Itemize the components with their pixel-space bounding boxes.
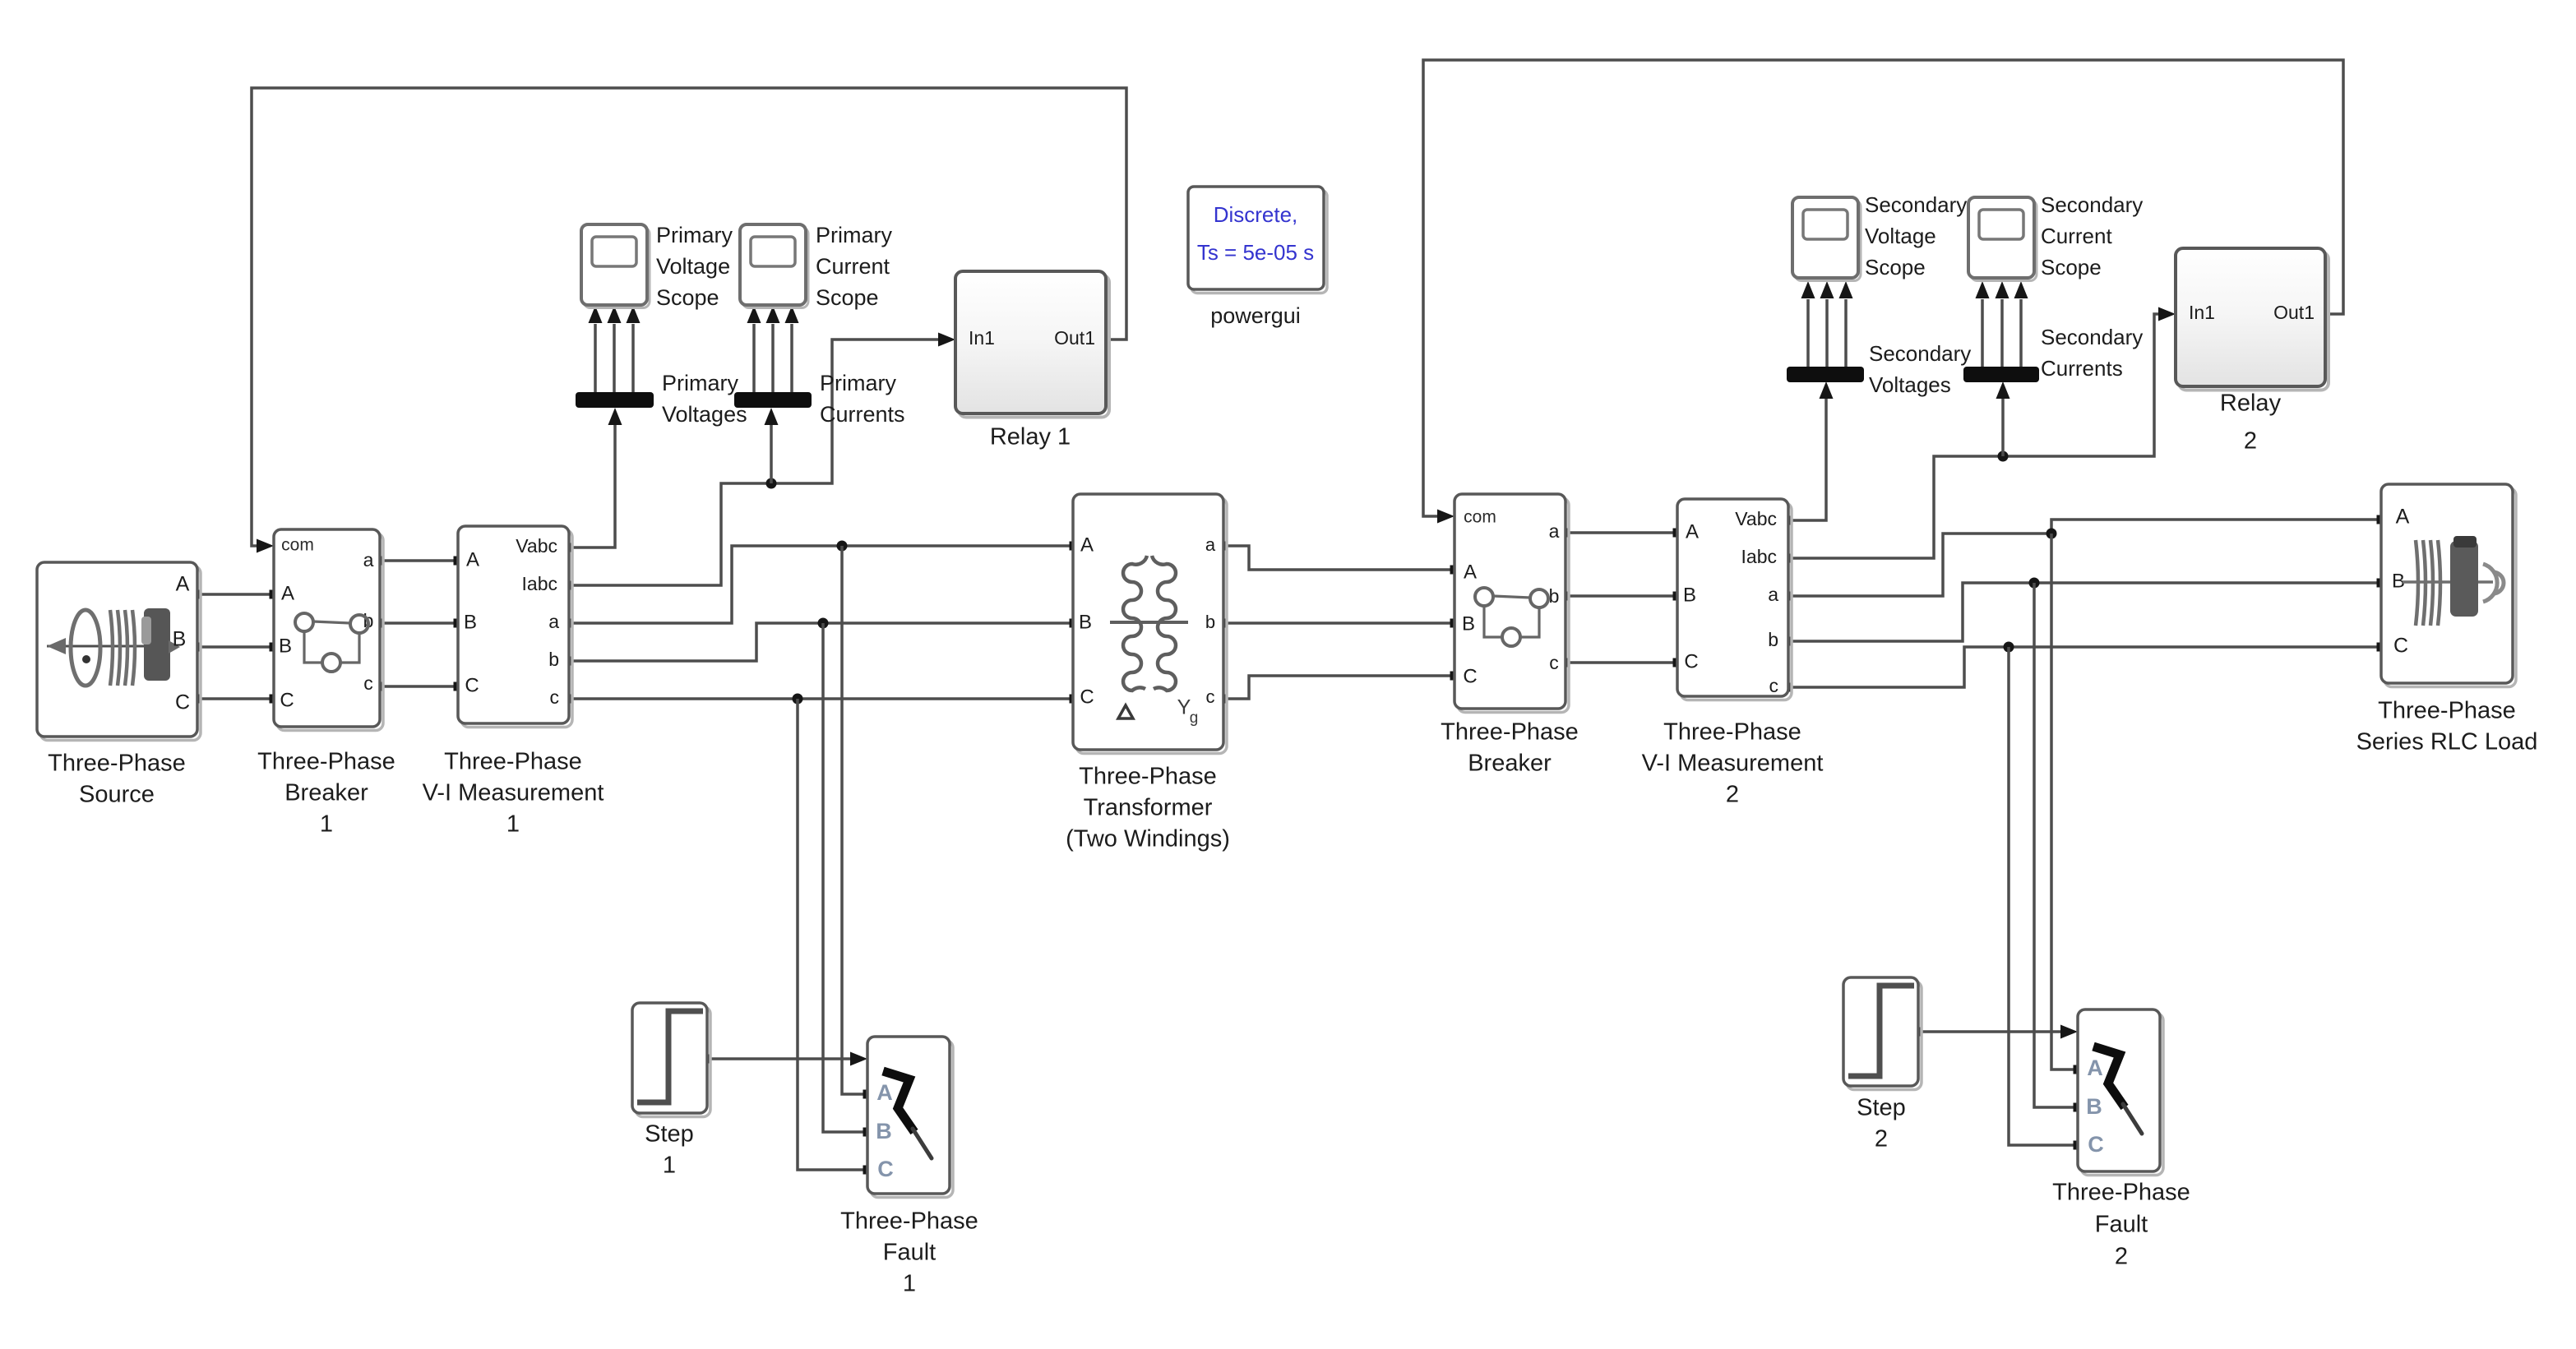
svg-text:B: B — [1079, 611, 1092, 633]
svg-text:Secondary: Secondary — [2041, 325, 2143, 349]
three-phase source block — [37, 562, 201, 741]
label Primary Current Scope — [816, 223, 892, 310]
wire tap phase C to Fault1 C — [793, 694, 872, 1175]
junction Iabc2 to Secondary Currents mux — [1996, 381, 2010, 462]
svg-text:A: A — [176, 573, 190, 596]
primary voltages mux bar — [576, 392, 654, 408]
svg-text:Three-Phase: Three-Phase — [2378, 698, 2516, 724]
svg-text:c: c — [363, 672, 373, 694]
label Step 2 — [1857, 1095, 1906, 1153]
wire tap phase B to Fault1 B — [818, 618, 872, 1137]
svg-text:a: a — [1768, 584, 1778, 605]
svg-text:1: 1 — [506, 811, 520, 838]
primary current scope block — [740, 224, 808, 308]
wire Primary Voltages mux out 1 to Voltage Scope — [589, 306, 603, 392]
svg-text:Relay: Relay — [2220, 390, 2282, 417]
label Relay 2 — [2220, 390, 2282, 455]
label Three-Phase Fault 1 — [840, 1208, 978, 1297]
three-phase V-I measurement 2 block — [1677, 499, 1792, 700]
powergui block — [1188, 187, 1327, 293]
svg-text:Scope: Scope — [2041, 255, 2102, 280]
svg-text:a: a — [548, 611, 559, 632]
svg-text:B: B — [1462, 612, 1475, 635]
svg-text:Relay 1: Relay 1 — [990, 424, 1071, 450]
wire Breaker2 c to VI2 C — [1561, 658, 1682, 668]
svg-text:Three-Phase: Three-Phase — [444, 749, 582, 775]
svg-text:Primary: Primary — [656, 223, 733, 247]
svg-text:C: C — [175, 691, 190, 714]
svg-text:Fault: Fault — [883, 1240, 936, 1266]
wire Primary Voltages mux out 2 to Voltage Scope — [608, 306, 622, 392]
label Three-Phase Source — [48, 751, 186, 808]
svg-text:Three-Phase: Three-Phase — [257, 749, 395, 775]
wire Secondary Voltages mux out 3 to Voltage Scope — [1839, 281, 1853, 367]
wire VI1 Iabc to Relay1 In1 — [565, 333, 956, 590]
svg-text:A: A — [1686, 520, 1699, 543]
secondary current scope block — [1968, 197, 2037, 281]
svg-text:Three-Phase: Three-Phase — [840, 1208, 978, 1235]
svg-text:b: b — [1205, 612, 1215, 632]
svg-text:powergui: powergui — [1210, 303, 1301, 328]
label Three-Phase V-I Measurement 2 — [1642, 719, 1824, 808]
wire tap phase A to Fault1 A — [837, 541, 872, 1099]
three-phase transformer (two windings) block — [1073, 494, 1227, 754]
svg-text:C: C — [877, 1157, 894, 1181]
primary voltage scope block — [581, 224, 650, 308]
step 2 block — [1843, 977, 1922, 1090]
svg-text:Source: Source — [79, 782, 155, 808]
svg-text:g: g — [1190, 709, 1199, 727]
svg-text:C: C — [1080, 686, 1094, 708]
svg-text:Breaker: Breaker — [284, 780, 368, 806]
svg-text:a: a — [363, 549, 374, 571]
primary currents mux bar — [734, 392, 812, 408]
svg-text:Transformer: Transformer — [1084, 795, 1213, 821]
wire VI2 c to RLC Load C — [1784, 643, 2386, 692]
svg-text:2: 2 — [1726, 782, 1739, 808]
svg-text:(Two Windings): (Two Windings) — [1066, 826, 1230, 852]
label Primary Voltages — [662, 371, 747, 427]
three-phase V-I measurement 1 block — [458, 526, 572, 728]
svg-text:In1: In1 — [2189, 302, 2215, 323]
svg-text:1: 1 — [903, 1271, 916, 1297]
svg-text:2: 2 — [2244, 428, 2257, 455]
wire Secondary Currents mux out 3 to Current Scope — [2014, 281, 2028, 367]
svg-text:Currents: Currents — [2041, 356, 2123, 381]
svg-text:Secondary: Secondary — [1865, 192, 1967, 217]
wire Secondary Voltages mux out 1 to Voltage Scope — [1801, 281, 1815, 367]
svg-text:c: c — [1206, 686, 1215, 707]
svg-text:B: B — [173, 628, 187, 651]
svg-text:Voltage: Voltage — [656, 254, 730, 279]
wire Secondary Currents mux out 1 to Current Scope — [1976, 281, 1990, 367]
svg-text:B: B — [464, 611, 477, 633]
svg-text:Voltages: Voltages — [1869, 372, 1951, 397]
svg-text:V-I Measurement: V-I Measurement — [1642, 751, 1824, 777]
svg-text:Secondary: Secondary — [1869, 341, 1971, 366]
svg-text:C: C — [2088, 1132, 2104, 1157]
svg-text:b: b — [1768, 629, 1778, 650]
svg-text:Scope: Scope — [656, 285, 719, 310]
label Three-Phase Fault 2 — [2052, 1180, 2190, 1270]
svg-text:Vabc: Vabc — [516, 535, 557, 557]
three-phase series RLC load block — [2381, 484, 2516, 687]
svg-text:Three-Phase: Three-Phase — [1441, 719, 1579, 746]
svg-text:1: 1 — [320, 811, 333, 838]
svg-text:a: a — [1205, 534, 1216, 555]
svg-text:Series RLC Load: Series RLC Load — [2356, 729, 2538, 755]
wire Source A to Breaker1 A — [193, 590, 279, 599]
svg-text:B: B — [876, 1119, 892, 1143]
label Three-Phase V-I Measurement 1 — [423, 749, 604, 838]
subsystem Relay 2 block — [2176, 248, 2329, 390]
svg-text:A: A — [2087, 1056, 2103, 1080]
three-phase breaker 2 block — [1454, 494, 1569, 713]
svg-text:Primary: Primary — [662, 371, 738, 395]
label Secondary Voltage Scope — [1865, 192, 1967, 280]
wire Breaker1 c to VI1 C — [376, 682, 463, 691]
wire Primary Voltages mux out 3 to Voltage Scope — [627, 306, 641, 392]
wire Transformer a to Breaker2 A — [1219, 542, 1459, 575]
wire Primary Currents mux out 1 to Current Scope — [747, 306, 761, 392]
svg-text:com: com — [281, 536, 314, 555]
svg-text:A: A — [1464, 561, 1477, 583]
wire Secondary Currents mux out 2 to Current Scope — [1996, 281, 2009, 367]
svg-text:Out1: Out1 — [2273, 302, 2315, 323]
wire Primary Currents mux out 2 to Current Scope — [766, 306, 780, 392]
svg-text:b: b — [1549, 585, 1560, 607]
wire Breaker1 b to VI1 B — [376, 619, 463, 628]
svg-text:A: A — [281, 582, 294, 604]
svg-text:A: A — [876, 1080, 893, 1105]
wire tap phase C to Fault2 C — [2004, 642, 2083, 1150]
wire VI1 a to Transformer A — [565, 542, 1079, 628]
wire Secondary Voltages mux out 2 to Voltage Scope — [1820, 281, 1834, 367]
wire tap phase B to Fault2 B — [2029, 578, 2083, 1112]
three-phase breaker 1 block — [274, 529, 383, 731]
wire tap phase A to Fault2 A — [2046, 529, 2083, 1074]
svg-text:Voltages: Voltages — [662, 402, 747, 427]
svg-text:C: C — [1684, 650, 1698, 672]
svg-text:Iabc: Iabc — [522, 573, 557, 594]
wire Primary Currents mux out 3 to Current Scope — [785, 306, 799, 392]
wire Step1 to Fault1 trigger — [701, 1052, 868, 1066]
svg-text:Iabc: Iabc — [1741, 546, 1777, 567]
svg-text:Three-Phase: Three-Phase — [1079, 764, 1217, 790]
label Step 1 — [645, 1121, 694, 1179]
svg-text:Ts = 5e-05 s: Ts = 5e-05 s — [1197, 240, 1314, 265]
wire Step2 to Fault2 trigger — [1914, 1025, 2079, 1039]
wire Breaker2 a to VI2 A — [1561, 529, 1682, 538]
label Relay 1 — [990, 424, 1071, 450]
svg-text:Step: Step — [645, 1121, 694, 1148]
secondary currents mux bar — [1963, 367, 2039, 382]
svg-text:1: 1 — [663, 1153, 676, 1179]
svg-text:C: C — [280, 689, 294, 711]
secondary voltage scope block — [1792, 197, 1861, 281]
wire Transformer c to Breaker2 C — [1219, 672, 1459, 704]
svg-text:Scope: Scope — [816, 285, 879, 310]
svg-text:Three-Phase: Three-Phase — [2052, 1180, 2190, 1206]
svg-text:Scope: Scope — [1865, 255, 1926, 280]
svg-text:Currents: Currents — [820, 402, 905, 427]
svg-text:a: a — [1549, 520, 1560, 542]
svg-text:b: b — [548, 649, 559, 670]
svg-text:Three-Phase: Three-Phase — [1663, 719, 1801, 746]
wire VI2 a to RLC Load A — [1784, 515, 2386, 601]
wire Breaker2 b to VI2 B — [1561, 592, 1682, 601]
label Primary Voltage Scope — [656, 223, 733, 310]
label Three-Phase Breaker 1 — [257, 749, 395, 838]
wire Source C to Breaker1 C — [193, 695, 279, 704]
svg-text:c: c — [550, 686, 560, 708]
wire VI1 Vabc to Primary Voltages mux — [565, 408, 622, 552]
svg-text:Vabc: Vabc — [1735, 508, 1777, 529]
svg-text:com: com — [1464, 508, 1496, 527]
svg-text:B: B — [2086, 1094, 2102, 1119]
wire Relay2 Out1 feedback loop to Breaker2 com — [1423, 60, 2343, 524]
svg-text:Primary: Primary — [816, 223, 892, 247]
label Secondary Current Scope — [2041, 192, 2143, 280]
svg-text:2: 2 — [2115, 1244, 2128, 1270]
svg-text:2: 2 — [1875, 1126, 1888, 1153]
three-phase fault 1 block — [867, 1037, 953, 1198]
label Secondary Voltages — [1869, 341, 1971, 397]
junction Iabc to Primary Currents mux — [765, 408, 779, 489]
svg-text:c: c — [1549, 652, 1559, 673]
wire Source B to Breaker1 B — [193, 643, 279, 652]
svg-text:Discrete,: Discrete, — [1214, 202, 1298, 227]
subsystem Relay 1 block — [955, 271, 1109, 418]
svg-text:Primary: Primary — [820, 371, 896, 395]
svg-text:A: A — [1080, 534, 1094, 556]
label Three-Phase Series RLC Load — [2356, 698, 2538, 755]
svg-text:C: C — [2393, 635, 2408, 658]
secondary voltages mux bar — [1787, 367, 1864, 382]
svg-text:C: C — [465, 674, 479, 696]
svg-text:Out1: Out1 — [1054, 327, 1095, 349]
label Primary Currents — [820, 371, 905, 427]
step 1 block — [632, 1003, 710, 1117]
wire Breaker1 a to VI1 A — [376, 557, 463, 566]
svg-text:Secondary: Secondary — [2041, 192, 2143, 217]
wire VI2 Vabc to Secondary Voltages mux — [1784, 381, 1834, 525]
svg-text:A: A — [2396, 506, 2410, 529]
svg-text:B: B — [279, 635, 292, 657]
three-phase fault 2 block — [2078, 1009, 2163, 1176]
label powergui — [1210, 303, 1301, 328]
svg-text:C: C — [1463, 665, 1477, 687]
svg-text:Current: Current — [2041, 224, 2112, 248]
svg-text:Fault: Fault — [2095, 1212, 2148, 1238]
svg-text:Current: Current — [816, 254, 890, 279]
label Three-Phase Breaker — [1441, 719, 1579, 777]
label Secondary Currents — [2041, 325, 2143, 381]
svg-text:V-I Measurement: V-I Measurement — [423, 780, 604, 806]
svg-text:A: A — [466, 548, 479, 571]
svg-text:Three-Phase: Three-Phase — [48, 751, 186, 777]
svg-text:Step: Step — [1857, 1095, 1906, 1121]
label Three-Phase Transformer (Two Windings) — [1066, 764, 1230, 852]
wire VI2 Iabc to Relay2 In1 — [1784, 307, 2176, 563]
wire VI1 c to Transformer C — [565, 695, 1079, 704]
wire Relay1 Out1 feedback loop to Breaker1 com — [252, 88, 1126, 553]
wire Transformer b to Breaker2 B — [1219, 619, 1459, 628]
svg-text:c: c — [1769, 675, 1779, 696]
wire VI2 b to RLC Load B — [1784, 579, 2386, 646]
svg-text:Voltage: Voltage — [1865, 224, 1936, 248]
svg-text:Breaker: Breaker — [1468, 751, 1552, 777]
svg-text:In1: In1 — [969, 327, 995, 349]
svg-text:B: B — [1683, 584, 1696, 606]
wire VI1 b to Transformer B — [565, 619, 1079, 666]
